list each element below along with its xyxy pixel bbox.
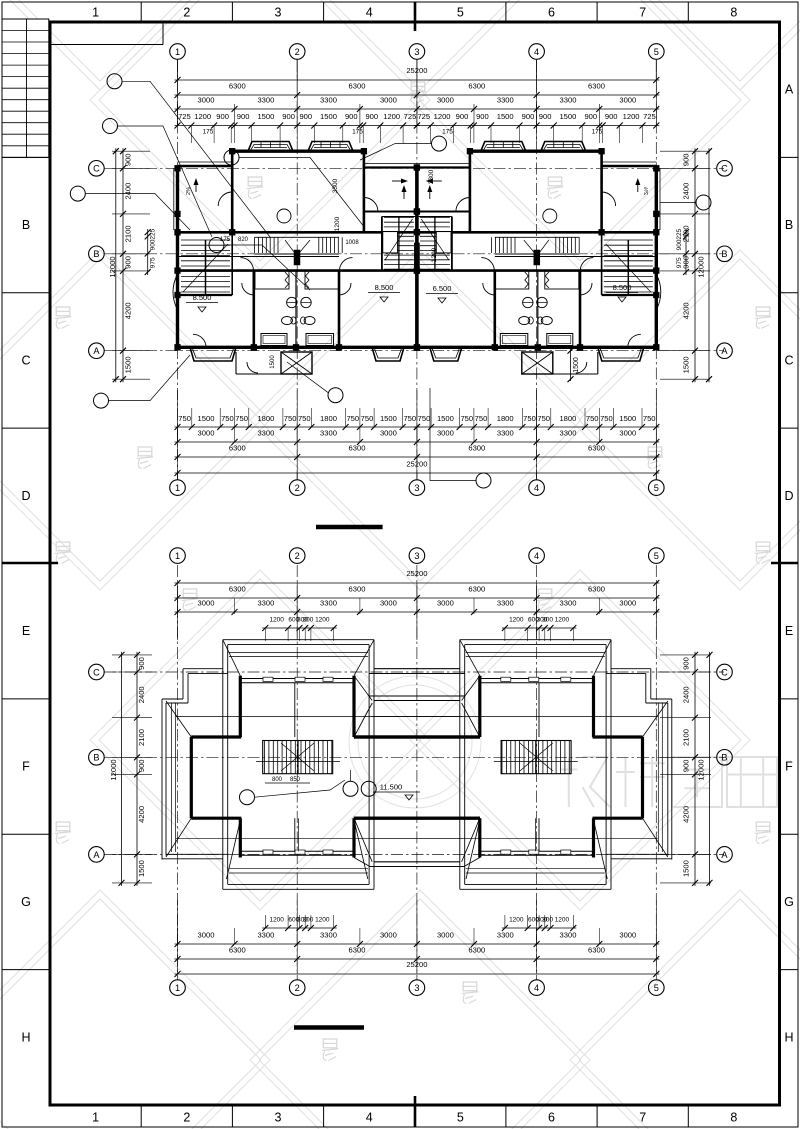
svg-text:900: 900 <box>676 239 683 250</box>
svg-text:3000: 3000 <box>198 931 215 940</box>
svg-text:900: 900 <box>345 112 358 121</box>
svg-text:F: F <box>22 760 30 774</box>
svg-text:3: 3 <box>275 1111 282 1125</box>
svg-text:A: A <box>721 346 728 356</box>
svg-text:175: 175 <box>442 129 453 136</box>
svg-text:900: 900 <box>282 112 295 121</box>
svg-text:5: 5 <box>654 47 659 57</box>
svg-text:6300: 6300 <box>588 444 605 453</box>
svg-text:3300: 3300 <box>320 599 337 608</box>
svg-text:750: 750 <box>298 414 311 423</box>
svg-text:1: 1 <box>175 983 180 993</box>
svg-text:1500: 1500 <box>257 112 274 121</box>
svg-text:3300: 3300 <box>560 931 577 940</box>
svg-text:3: 3 <box>414 983 419 993</box>
svg-text:1500: 1500 <box>270 355 276 369</box>
svg-text:2100: 2100 <box>682 729 691 746</box>
svg-text:4200: 4200 <box>682 302 691 319</box>
lower plan roof right unit (mirror) <box>354 640 672 890</box>
svg-text:1200: 1200 <box>269 917 284 924</box>
svg-text:4200: 4200 <box>124 302 133 319</box>
svg-text:B: B <box>785 218 793 232</box>
svg-text:C: C <box>721 164 728 174</box>
svg-text:1: 1 <box>92 6 99 20</box>
svg-text:4: 4 <box>534 551 539 561</box>
svg-text:B: B <box>721 753 727 763</box>
svg-text:1500: 1500 <box>559 112 576 121</box>
svg-text:6300: 6300 <box>588 946 605 955</box>
svg-text:1500: 1500 <box>682 860 691 877</box>
svg-text:12000: 12000 <box>697 256 706 277</box>
svg-text:1200: 1200 <box>383 112 400 121</box>
svg-text:6300: 6300 <box>229 82 246 91</box>
svg-text:900: 900 <box>124 256 133 269</box>
svg-text:6300: 6300 <box>229 585 246 594</box>
svg-text:900: 900 <box>237 112 250 121</box>
svg-text:725: 725 <box>417 112 430 121</box>
svg-text:975: 975 <box>676 257 683 268</box>
svg-text:5: 5 <box>457 6 464 20</box>
svg-text:25200: 25200 <box>406 66 427 75</box>
svg-text:3000: 3000 <box>380 429 397 438</box>
svg-text:6300: 6300 <box>588 585 605 594</box>
svg-text:6: 6 <box>548 6 555 20</box>
svg-text:B: B <box>93 249 99 259</box>
svg-text:900: 900 <box>456 112 469 121</box>
svg-text:1200: 1200 <box>555 617 570 624</box>
svg-text:3000: 3000 <box>437 95 454 104</box>
svg-text:3000: 3000 <box>437 429 454 438</box>
upper plan left dim chain <box>122 148 124 382</box>
upper plan top dim chains <box>175 79 660 81</box>
svg-text:3000: 3000 <box>380 95 397 104</box>
svg-text:8.500: 8.500 <box>193 293 212 302</box>
svg-text:A: A <box>721 850 728 860</box>
svg-text:900: 900 <box>365 112 378 121</box>
svg-text:750: 750 <box>235 414 248 423</box>
svg-text:3300: 3300 <box>320 429 337 438</box>
svg-text:8.500: 8.500 <box>613 283 632 292</box>
svg-text:750: 750 <box>460 414 473 423</box>
svg-text:900: 900 <box>539 112 552 121</box>
svg-text:1200: 1200 <box>555 917 570 924</box>
svg-text:D: D <box>21 489 30 503</box>
upper plan bottom dim chains <box>175 426 420 428</box>
svg-text:725: 725 <box>404 112 417 121</box>
svg-text:C: C <box>93 164 100 174</box>
svg-text:3000: 3000 <box>198 95 215 104</box>
svg-text:900: 900 <box>137 657 146 670</box>
svg-text:6.500: 6.500 <box>433 284 452 293</box>
svg-text:1: 1 <box>92 1111 99 1125</box>
frame notch top-left <box>50 44 163 46</box>
svg-text:12000: 12000 <box>109 759 118 780</box>
svg-text:750: 750 <box>643 414 656 423</box>
svg-text:2: 2 <box>183 1111 190 1125</box>
svg-text:6300: 6300 <box>349 946 366 955</box>
svg-text:6300: 6300 <box>468 946 485 955</box>
svg-text:D: D <box>784 489 793 503</box>
svg-text:1200: 1200 <box>509 617 524 624</box>
svg-text:750: 750 <box>418 414 431 423</box>
svg-text:4: 4 <box>366 1111 373 1125</box>
svg-text:6300: 6300 <box>468 585 485 594</box>
svg-text:750: 750 <box>284 414 297 423</box>
svg-text:3300: 3300 <box>257 931 274 940</box>
lower plan roof left unit <box>162 640 480 890</box>
svg-text:E: E <box>22 624 30 638</box>
upper plan grid bubbles bottom <box>170 480 186 496</box>
svg-text:1800: 1800 <box>257 414 274 423</box>
svg-text:11.500: 11.500 <box>380 783 402 792</box>
svg-text:1200: 1200 <box>269 617 284 624</box>
svg-text:900: 900 <box>216 112 229 121</box>
svg-text:6300: 6300 <box>349 585 366 594</box>
upper plan row bubbles <box>89 161 105 177</box>
svg-text:3300: 3300 <box>320 931 337 940</box>
svg-text:3000: 3000 <box>437 599 454 608</box>
svg-text:900: 900 <box>682 657 691 670</box>
svg-text:900: 900 <box>682 153 691 166</box>
svg-text:1200: 1200 <box>434 112 451 121</box>
svg-text:E: E <box>785 624 793 638</box>
upper plan building right dwelling (mirror) <box>414 142 661 375</box>
svg-text:25200: 25200 <box>406 569 427 578</box>
svg-text:1: 1 <box>175 483 180 493</box>
svg-text:6300: 6300 <box>588 82 605 91</box>
svg-text:8: 8 <box>730 1111 737 1125</box>
svg-text:3300: 3300 <box>332 178 339 193</box>
svg-text:750: 750 <box>537 414 550 423</box>
svg-text:1200: 1200 <box>315 917 330 924</box>
svg-text:800: 800 <box>272 777 283 783</box>
svg-text:2: 2 <box>295 483 300 493</box>
svg-text:G: G <box>784 895 794 909</box>
svg-text:750: 750 <box>586 414 599 423</box>
svg-text:300: 300 <box>303 617 314 624</box>
svg-text:7: 7 <box>639 6 646 20</box>
svg-text:2100: 2100 <box>137 729 146 746</box>
svg-text:2400: 2400 <box>682 686 691 703</box>
svg-text:750: 750 <box>523 414 536 423</box>
svg-text:1500: 1500 <box>619 414 636 423</box>
svg-text:H: H <box>784 1030 793 1044</box>
lower plan side dim chains <box>136 652 138 886</box>
svg-text:2400: 2400 <box>124 183 133 200</box>
svg-text:1500: 1500 <box>124 356 133 373</box>
frame row ticks and letters <box>2 156 50 158</box>
svg-text:1500: 1500 <box>682 356 691 373</box>
svg-text:6300: 6300 <box>349 444 366 453</box>
svg-text:C: C <box>784 353 793 367</box>
svg-text:1500: 1500 <box>320 112 337 121</box>
svg-text:900: 900 <box>522 112 535 121</box>
svg-text:3000: 3000 <box>619 429 636 438</box>
svg-text:300: 300 <box>303 917 314 924</box>
lower plan bottom dim chains <box>262 927 336 929</box>
svg-text:3300: 3300 <box>497 95 514 104</box>
lower plan top dim chains <box>175 582 660 584</box>
svg-text:5: 5 <box>457 1111 464 1125</box>
svg-text:6300: 6300 <box>229 946 246 955</box>
svg-text:6300: 6300 <box>468 82 485 91</box>
svg-text:A: A <box>93 850 100 860</box>
svg-text:900: 900 <box>476 112 489 121</box>
svg-text:8.500: 8.500 <box>375 283 394 292</box>
svg-text:8: 8 <box>730 6 737 20</box>
svg-text:4: 4 <box>534 983 539 993</box>
svg-text:1800: 1800 <box>559 414 576 423</box>
svg-text:975: 975 <box>150 257 157 268</box>
svg-text:1800: 1800 <box>320 414 337 423</box>
svg-text:1200: 1200 <box>194 112 211 121</box>
svg-text:3300: 3300 <box>560 429 577 438</box>
svg-text:3: 3 <box>414 483 419 493</box>
svg-text:4200: 4200 <box>682 806 691 823</box>
svg-text:3300: 3300 <box>428 169 435 184</box>
svg-text:1500: 1500 <box>437 414 454 423</box>
svg-text:4200: 4200 <box>137 806 146 823</box>
svg-text:3300: 3300 <box>320 95 337 104</box>
svg-text:G: G <box>21 895 31 909</box>
svg-text:5: 5 <box>654 983 659 993</box>
svg-text:225: 225 <box>150 228 157 239</box>
svg-text:300: 300 <box>542 917 553 924</box>
svg-text:750: 750 <box>346 414 359 423</box>
svg-text:C: C <box>93 667 100 677</box>
svg-text:2100: 2100 <box>124 225 133 242</box>
svg-text:750: 750 <box>403 414 416 423</box>
svg-text:3300: 3300 <box>560 599 577 608</box>
svg-text:12000: 12000 <box>697 759 706 780</box>
svg-text:2: 2 <box>183 6 190 20</box>
svg-text:3000: 3000 <box>619 931 636 940</box>
svg-text:1500: 1500 <box>137 860 146 877</box>
svg-text:175: 175 <box>352 129 363 136</box>
svg-text:1200: 1200 <box>623 112 640 121</box>
watermark big logo <box>560 769 578 771</box>
svg-text:900: 900 <box>137 759 146 772</box>
svg-text:3300: 3300 <box>497 599 514 608</box>
svg-text:1800: 1800 <box>497 414 514 423</box>
svg-text:900: 900 <box>605 112 618 121</box>
watermark circles <box>349 676 481 808</box>
svg-text:2: 2 <box>295 47 300 57</box>
svg-text:175: 175 <box>592 129 603 136</box>
svg-text:B: B <box>721 249 727 259</box>
upper plan grid bubbles top <box>170 44 186 60</box>
svg-text:C: C <box>721 667 728 677</box>
svg-text:3: 3 <box>414 47 419 57</box>
svg-text:900: 900 <box>584 112 597 121</box>
svg-text:4: 4 <box>534 483 539 493</box>
svg-text:300: 300 <box>542 617 553 624</box>
svg-text:1: 1 <box>175 47 180 57</box>
svg-text:2%: 2% <box>186 187 192 195</box>
svg-text:3: 3 <box>275 6 282 20</box>
svg-text:750: 750 <box>600 414 613 423</box>
svg-text:175: 175 <box>203 129 214 136</box>
svg-text:850: 850 <box>290 777 301 783</box>
svg-text:1008: 1008 <box>345 240 359 246</box>
svg-text:2: 2 <box>295 551 300 561</box>
svg-text:1500: 1500 <box>497 112 514 121</box>
svg-text:3000: 3000 <box>380 599 397 608</box>
svg-text:1500: 1500 <box>198 414 215 423</box>
svg-text:1500: 1500 <box>380 414 397 423</box>
svg-text:3000: 3000 <box>619 95 636 104</box>
upper plan right dim chain <box>694 148 696 382</box>
svg-text:6: 6 <box>548 1111 555 1125</box>
upper plan callout circles <box>107 74 122 89</box>
svg-text:1200: 1200 <box>431 247 438 262</box>
svg-text:900: 900 <box>299 112 312 121</box>
svg-text:750: 750 <box>475 414 488 423</box>
svg-text:5: 5 <box>654 483 659 493</box>
svg-text:750: 750 <box>361 414 374 423</box>
svg-text:7: 7 <box>639 1111 646 1125</box>
svg-text:3000: 3000 <box>437 931 454 940</box>
svg-text:3: 3 <box>414 551 419 561</box>
svg-text:3300: 3300 <box>497 429 514 438</box>
svg-text:820: 820 <box>238 237 249 243</box>
title table <box>2 19 49 157</box>
svg-text:3300: 3300 <box>560 95 577 104</box>
watermark glyphs <box>56 307 70 316</box>
svg-text:3300: 3300 <box>257 429 274 438</box>
svg-text:3000: 3000 <box>198 599 215 608</box>
section bar 1 <box>316 525 383 530</box>
svg-text:A: A <box>785 83 794 97</box>
svg-text:2: 2 <box>295 983 300 993</box>
svg-text:1500: 1500 <box>573 357 580 373</box>
svg-text:900: 900 <box>682 759 691 772</box>
svg-text:3000: 3000 <box>198 429 215 438</box>
svg-text:750: 750 <box>178 414 191 423</box>
frame column ticks <box>140 2 142 22</box>
svg-text:B: B <box>22 218 30 232</box>
svg-text:3000: 3000 <box>619 599 636 608</box>
svg-text:A: A <box>93 346 100 356</box>
svg-text:2400: 2400 <box>682 183 691 200</box>
svg-text:225: 225 <box>676 228 683 239</box>
svg-text:3000: 3000 <box>380 931 397 940</box>
svg-text:1: 1 <box>175 551 180 561</box>
svg-text:900: 900 <box>124 153 133 166</box>
svg-text:900: 900 <box>150 239 157 250</box>
svg-text:3300: 3300 <box>497 931 514 940</box>
svg-text:3300: 3300 <box>257 95 274 104</box>
svg-text:725: 725 <box>643 112 656 121</box>
svg-text:6300: 6300 <box>229 444 246 453</box>
svg-text:B: B <box>93 753 99 763</box>
svg-text:F: F <box>785 760 793 774</box>
section bar 2 <box>294 1025 364 1030</box>
svg-text:1200: 1200 <box>509 917 524 924</box>
svg-text:5: 5 <box>654 551 659 561</box>
svg-text:1200: 1200 <box>315 617 330 624</box>
svg-text:6300: 6300 <box>349 82 366 91</box>
svg-text:C: C <box>21 353 30 367</box>
svg-text:3300: 3300 <box>257 599 274 608</box>
svg-text:2%: 2% <box>642 187 648 195</box>
upper plan grid lines <box>177 60 179 480</box>
svg-text:1200: 1200 <box>334 216 341 231</box>
lower plan grid lines <box>177 565 179 980</box>
svg-text:750: 750 <box>221 414 234 423</box>
svg-text:6300: 6300 <box>468 444 485 453</box>
upper plan building left dwelling <box>173 142 420 375</box>
svg-text:H: H <box>21 1030 30 1044</box>
svg-text:2400: 2400 <box>137 686 146 703</box>
svg-text:4: 4 <box>366 6 373 20</box>
svg-text:4: 4 <box>534 47 539 57</box>
lower plan grid bubbles <box>170 548 186 564</box>
